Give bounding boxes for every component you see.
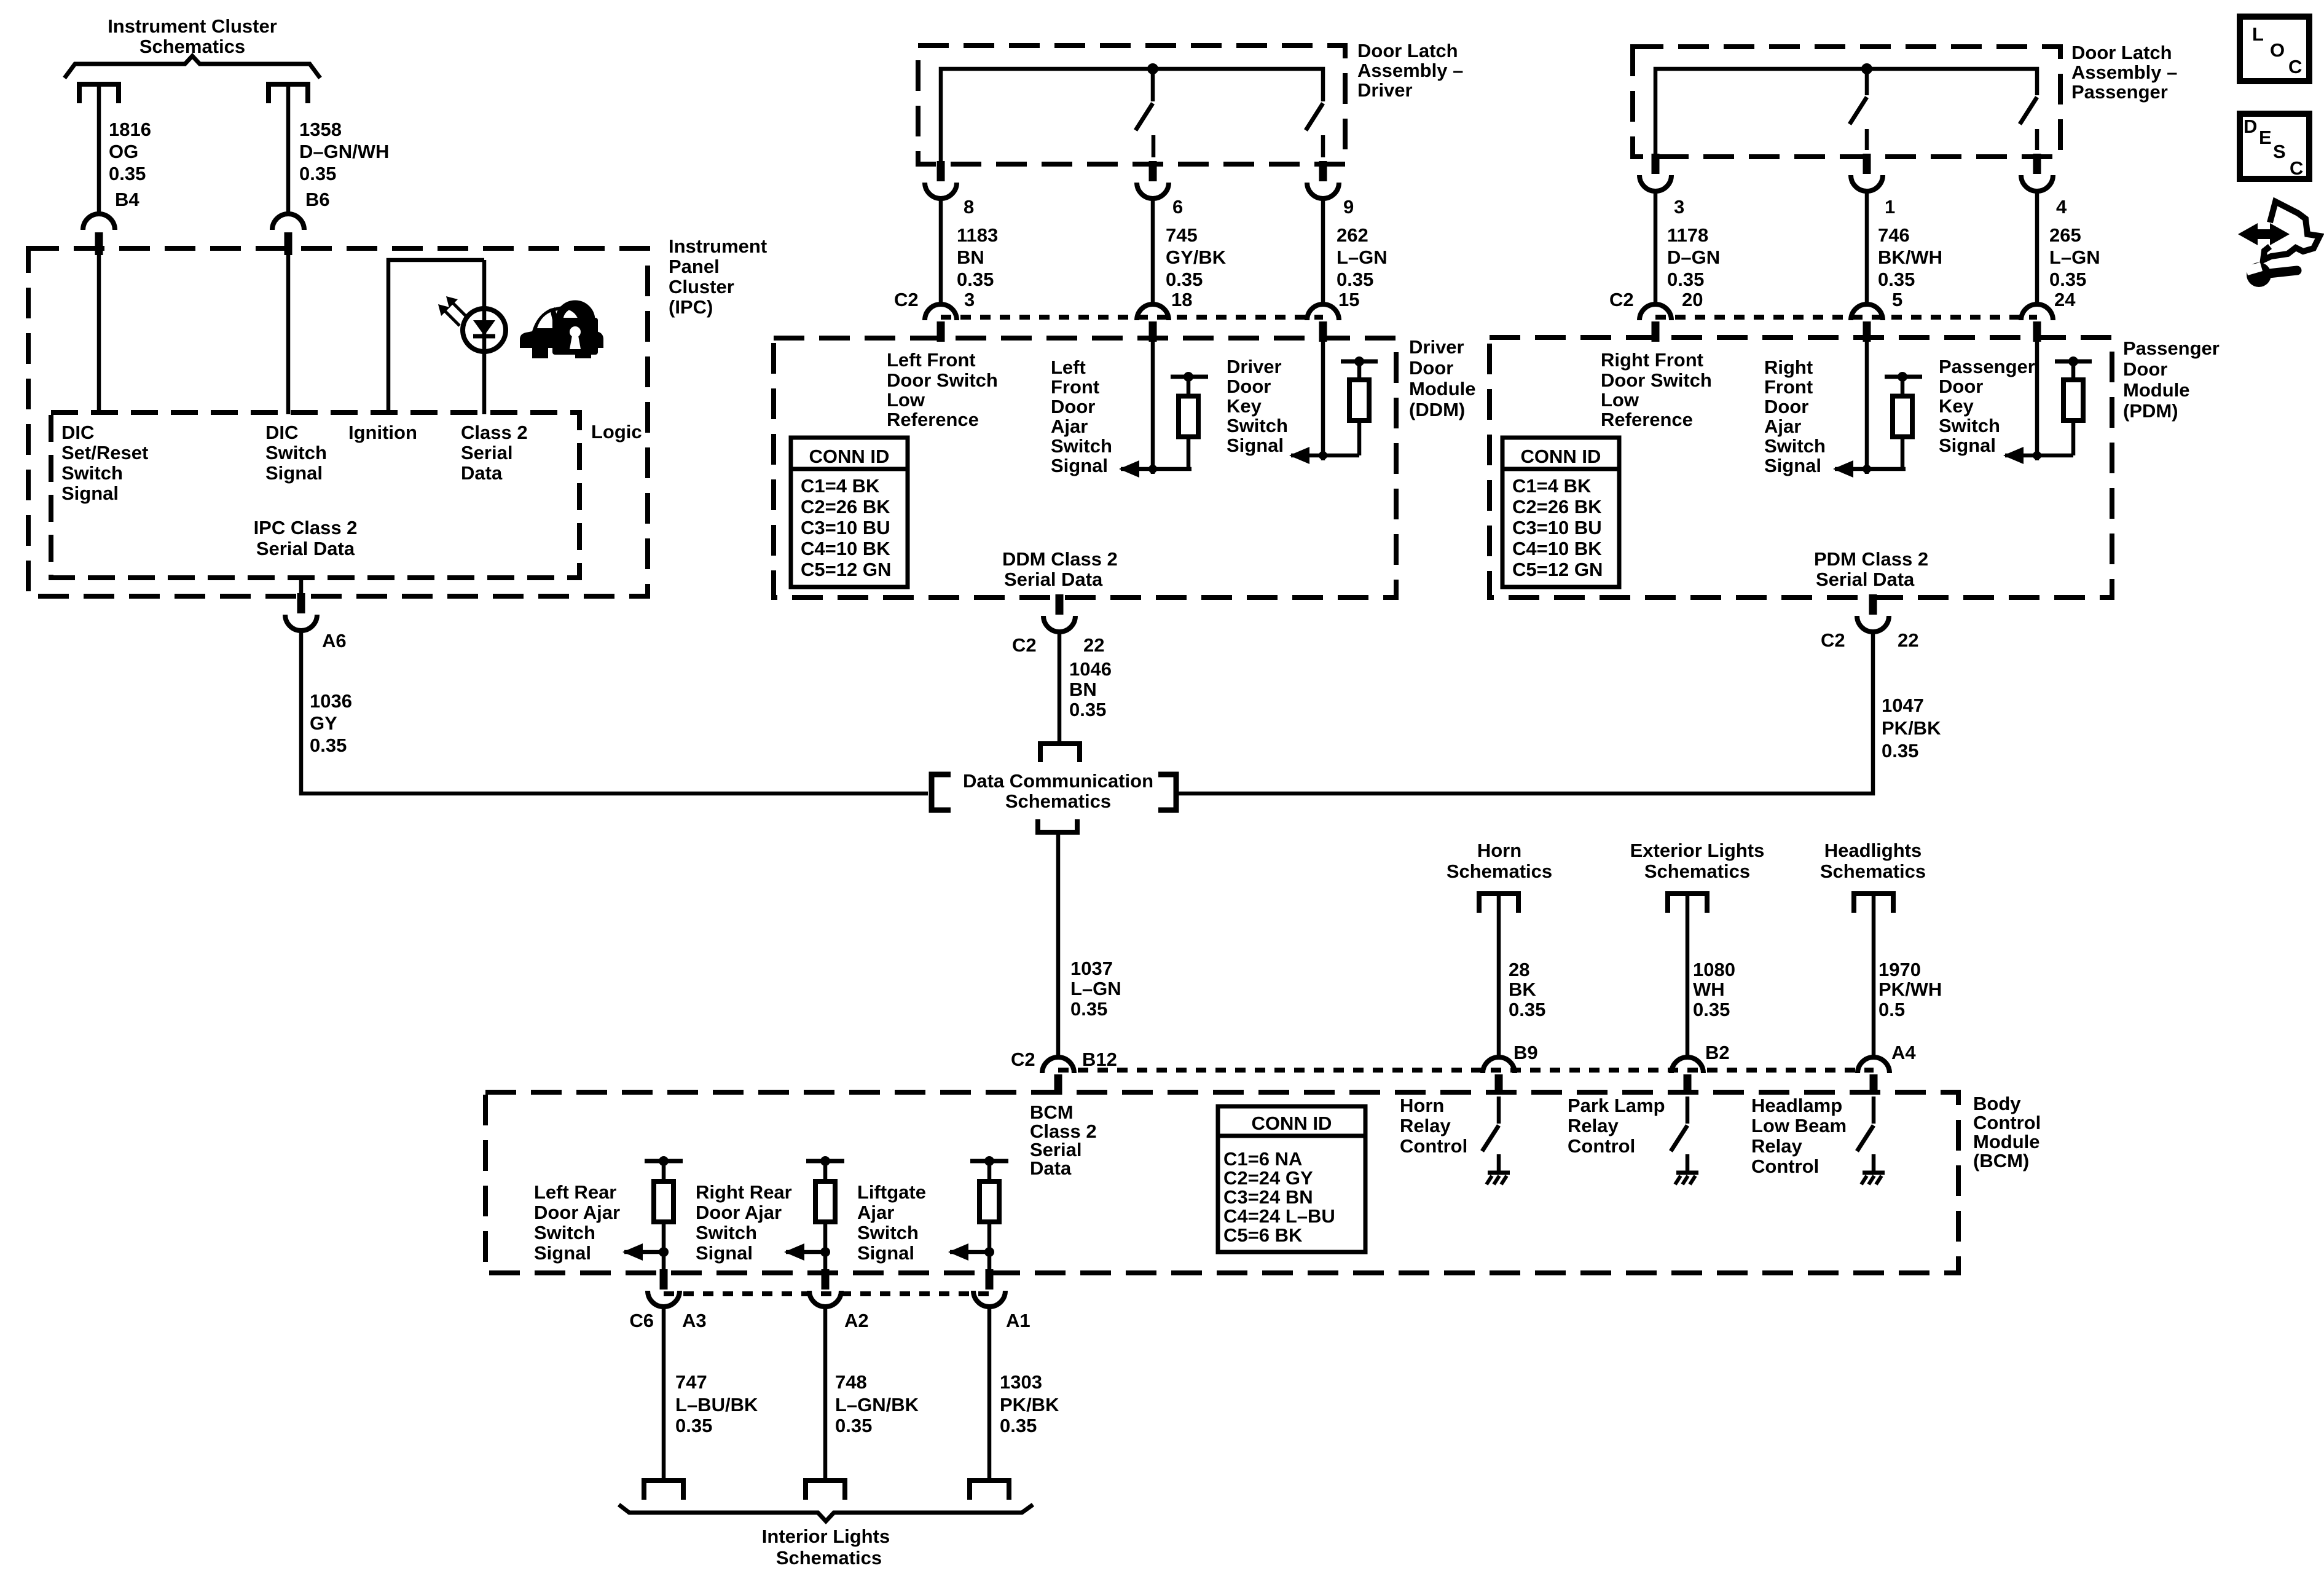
switch latch passenger key [2020, 97, 2037, 150]
svg-text:WH: WH [1693, 979, 1725, 1000]
wire 1358 D-GN/WH [286, 86, 291, 214]
svg-text:Signal: Signal [265, 462, 323, 484]
svg-text:Relay: Relay [1400, 1115, 1451, 1136]
svg-text:262: 262 [1337, 224, 1368, 246]
svg-text:PK/WH: PK/WH [1878, 979, 1942, 1000]
svg-text:Assembly –: Assembly – [2071, 61, 2177, 83]
svg-text:747: 747 [675, 1371, 707, 1393]
junction key passenger [2033, 451, 2041, 460]
ground at x=2746 [1675, 1154, 1698, 1184]
svg-text:(PDM): (PDM) [2123, 400, 2178, 422]
svg-text:Schematics: Schematics [1447, 860, 1552, 882]
wire 1970 PK/WH [1872, 896, 1876, 1057]
svg-text:C2: C2 [1609, 289, 1634, 310]
junction latch passenger [1861, 63, 1872, 74]
junction branch A3 [659, 1247, 669, 1257]
svg-text:B6: B6 [305, 189, 330, 210]
svg-text:Signal: Signal [1051, 455, 1108, 476]
svg-text:Switch: Switch [1227, 415, 1288, 436]
svg-text:E: E [2259, 127, 2272, 148]
connector C2-22 PDM [1857, 594, 1889, 632]
svg-text:C2: C2 [1012, 634, 1037, 656]
svg-text:0.35: 0.35 [109, 163, 146, 184]
svg-text:Ajar: Ajar [857, 1202, 894, 1223]
label IPC Class 2 Serial Data [254, 517, 358, 559]
switch latch driver ajar [1136, 69, 1153, 157]
svg-text:Signal: Signal [61, 482, 119, 504]
label Right Rear Door Ajar Switch Signal [696, 1181, 792, 1264]
label DIC Set/Reset Switch Signal [61, 422, 148, 504]
wire 746 BK/WH [1865, 191, 1869, 305]
svg-text:O: O [2270, 39, 2285, 61]
svg-text:0.35: 0.35 [1069, 699, 1106, 720]
svg-text:C3=24 BN: C3=24 BN [1223, 1186, 1313, 1208]
wire ignition loop [388, 260, 484, 414]
svg-text:DIC: DIC [265, 422, 298, 443]
pin labels 3 18 15 [964, 289, 1359, 310]
connector A3 [648, 1269, 680, 1307]
svg-text:A1: A1 [1006, 1310, 1030, 1331]
label Left Rear Door Ajar Switch Signal [534, 1181, 620, 1264]
connector C2-B12 BCM [1042, 1057, 1074, 1095]
svg-text:0.35: 0.35 [675, 1415, 712, 1436]
icon car with padlock [520, 304, 603, 358]
svg-text:745: 745 [1166, 224, 1198, 246]
svg-text:C3=10 BU: C3=10 BU [801, 517, 890, 538]
label Data Communication Schematics [963, 770, 1153, 812]
pin labels 8 6 9 [964, 196, 1354, 218]
svg-text:0.35: 0.35 [1000, 1415, 1037, 1436]
svg-text:1037: 1037 [1070, 958, 1113, 979]
svg-text:C2: C2 [894, 289, 919, 310]
svg-text:Horn: Horn [1477, 840, 1521, 861]
connector A2 [809, 1269, 841, 1307]
svg-text:C4=10 BK: C4=10 BK [1512, 538, 1602, 559]
connector bottom Data Communication [1038, 819, 1077, 832]
svg-text:1358: 1358 [299, 119, 342, 140]
svg-text:Data Communication: Data Communication [963, 770, 1153, 792]
svg-text:Serial: Serial [461, 442, 512, 463]
connector C2-18 [1137, 304, 1169, 342]
svg-text:Serial Data: Serial Data [1004, 569, 1103, 590]
svg-text:Key: Key [1227, 395, 1262, 417]
connector pin 6 [1137, 161, 1169, 199]
svg-text:Door Latch: Door Latch [1357, 40, 1458, 61]
svg-text:5: 5 [1892, 289, 1902, 310]
arrowhead key signal driver [1289, 447, 1309, 464]
svg-text:0.35: 0.35 [957, 269, 994, 290]
inner logic box [51, 412, 579, 578]
svg-text:Door Switch: Door Switch [887, 369, 998, 391]
svg-text:Driver: Driver [1357, 79, 1413, 101]
svg-text:Control: Control [1568, 1135, 1635, 1157]
wire arrow branch A1 [950, 1250, 989, 1254]
svg-text:C5=6 BK: C5=6 BK [1223, 1224, 1303, 1246]
svg-text:1036: 1036 [310, 690, 352, 712]
wire 747 to interior lights [662, 1307, 666, 1481]
svg-text:Door Ajar: Door Ajar [534, 1202, 620, 1223]
resistor branch A1 [970, 1156, 1008, 1252]
label Right Front Door Switch Low Reference [1601, 349, 1712, 430]
svg-text:C4=24 L–BU: C4=24 L–BU [1223, 1205, 1335, 1227]
label wire 1358 D-GN/WH 0.35 [299, 119, 389, 184]
svg-text:3: 3 [1674, 196, 1684, 218]
svg-text:0.35: 0.35 [2049, 269, 2086, 290]
wire key signal horizontal passenger [2005, 454, 2073, 458]
connector pin 4 [2021, 154, 2053, 191]
svg-text:Low: Low [887, 389, 925, 411]
relay control switch at x=2439 [1482, 1097, 1499, 1151]
svg-text:Ajar: Ajar [1051, 415, 1088, 437]
svg-text:Passenger: Passenger [1939, 356, 2035, 377]
svg-text:C2=26 BK: C2=26 BK [1512, 496, 1602, 518]
svg-text:OG: OG [109, 141, 138, 162]
wire DIC switch inside IPC [286, 255, 291, 414]
label Interior Lights Schematics [762, 1526, 890, 1569]
junction branch A2 [820, 1247, 830, 1257]
svg-text:1178: 1178 [1667, 224, 1708, 246]
svg-text:748: 748 [835, 1371, 867, 1393]
arrowhead branch A3 [622, 1243, 643, 1261]
svg-text:Control: Control [1400, 1135, 1467, 1157]
svg-text:Reference: Reference [887, 409, 979, 430]
dotted connector line BCM top [1058, 1068, 1874, 1073]
svg-text:Schematics: Schematics [1005, 790, 1111, 812]
svg-text:Schematics: Schematics [1820, 860, 1926, 882]
labels C2 B12 [1011, 1049, 1117, 1070]
connector pin 1 [1851, 154, 1883, 191]
connector C2-22 DDM [1043, 594, 1075, 632]
svg-text:Exterior Lights: Exterior Lights [1630, 840, 1765, 861]
svg-text:1046: 1046 [1069, 658, 1112, 680]
svg-text:D: D [2244, 116, 2257, 137]
wire 28 BK [1497, 896, 1501, 1057]
svg-text:Module: Module [1973, 1131, 2040, 1152]
svg-text:Low: Low [1601, 389, 1639, 411]
connector pin 8 [925, 161, 957, 199]
connector A4 at BCM [1858, 1057, 1890, 1095]
svg-text:C5=12 GN: C5=12 GN [1512, 559, 1603, 580]
connector A1 [973, 1269, 1005, 1307]
svg-text:1047: 1047 [1882, 695, 1924, 716]
svg-text:L–GN/BK: L–GN/BK [835, 1394, 919, 1416]
svg-text:Serial Data: Serial Data [1816, 569, 1915, 590]
module box Passenger Door Module (PDM) [1490, 337, 2112, 597]
svg-text:Liftgate: Liftgate [857, 1181, 926, 1203]
svg-text:Front: Front [1764, 376, 1813, 398]
svg-text:0.35: 0.35 [1667, 269, 1704, 290]
svg-text:L–GN: L–GN [1070, 978, 1121, 999]
wire branch A1 down [987, 1252, 992, 1274]
dotted connector line C2 passenger [1655, 315, 2037, 320]
wire arrow branch A3 [624, 1250, 664, 1254]
svg-text:Headlamp: Headlamp [1751, 1095, 1842, 1116]
svg-text:CONN ID: CONN ID [809, 446, 890, 467]
ground at x=3049 [1861, 1154, 1885, 1184]
junction ajar driver [1148, 465, 1157, 473]
label wire 1816 OG 0.35 [109, 119, 151, 184]
label BCM Class 2 Serial Data [1030, 1101, 1097, 1179]
svg-text:L–GN: L–GN [2049, 246, 2100, 268]
svg-text:Signal: Signal [857, 1242, 914, 1264]
label Driver Door Module (DDM) [1409, 336, 1476, 420]
svg-text:265: 265 [2049, 224, 2081, 246]
connector stub to Instrument Cluster (left) [79, 84, 119, 103]
svg-text:Module: Module [1409, 378, 1476, 400]
svg-text:PK/BK: PK/BK [1000, 1394, 1059, 1416]
svg-text:Switch: Switch [265, 442, 327, 463]
pin labels 20 5 24 [1682, 289, 2076, 310]
svg-text:BN: BN [1069, 679, 1097, 700]
resistor branch A3 [645, 1156, 683, 1252]
module box Driver Door Module (DDM) [774, 338, 1396, 597]
wire 748 to interior lights [823, 1307, 828, 1481]
svg-text:1080: 1080 [1693, 959, 1735, 980]
underbrace Interior Lights [619, 1505, 1033, 1521]
wire passenger door key switch signal [2035, 340, 2039, 460]
arrowhead branch A1 [948, 1243, 968, 1261]
svg-text:L–GN: L–GN [1337, 246, 1388, 268]
wire latch passenger common [1655, 69, 2037, 157]
svg-text:C1=4 BK: C1=4 BK [801, 475, 880, 497]
label Driver Door Key Switch Signal [1227, 356, 1288, 456]
label Passenger Door Key Switch Signal [1939, 356, 2035, 456]
connector stub Headlights Schematics [1854, 894, 1893, 913]
svg-text:0.5: 0.5 [1878, 999, 1905, 1020]
svg-text:D–GN/WH: D–GN/WH [299, 141, 389, 162]
DESC box [2240, 114, 2309, 179]
svg-text:(BCM): (BCM) [1973, 1150, 2029, 1171]
svg-text:Switch: Switch [61, 462, 123, 484]
svg-text:22: 22 [1898, 629, 1918, 651]
wire 1046 BN [1058, 632, 1062, 742]
svg-text:A4: A4 [1891, 1042, 1916, 1063]
pin labels A3 A2 A1 [682, 1310, 1030, 1331]
label wire 1036 GY 0.35 [310, 690, 352, 756]
svg-text:C6: C6 [629, 1310, 654, 1331]
svg-text:D–GN: D–GN [1667, 246, 1720, 268]
svg-text:Control: Control [1973, 1112, 2041, 1133]
module box Body Control Module (BCM) [485, 1092, 1958, 1273]
connector stub interior lights x=1080 [644, 1481, 683, 1500]
label Instrument Panel Cluster (IPC) [669, 235, 767, 318]
svg-text:Front: Front [1051, 376, 1099, 398]
svg-text:A3: A3 [682, 1310, 707, 1331]
svg-text:Door: Door [1227, 376, 1271, 397]
svg-text:Instrument: Instrument [669, 235, 767, 257]
icon wrench [2245, 262, 2297, 287]
svg-text:Instrument Cluster: Instrument Cluster [108, 15, 277, 37]
junction branch A1 [984, 1247, 994, 1257]
svg-text:0.35: 0.35 [1166, 269, 1203, 290]
svg-text:Left Front: Left Front [887, 349, 976, 371]
label DIC Switch Signal [265, 422, 327, 484]
arrowhead branch A2 [784, 1243, 804, 1261]
svg-text:Driver: Driver [1409, 336, 1464, 358]
svg-text:Door: Door [1764, 396, 1808, 417]
ground at x=2439 [1486, 1154, 1510, 1184]
wire 1037 L-GN [1056, 832, 1061, 1057]
svg-text:Door: Door [1051, 396, 1095, 417]
svg-text:Left Rear: Left Rear [534, 1181, 616, 1203]
connector B2 at BCM [1671, 1057, 1703, 1095]
labels C2 22 PDM [1821, 629, 1918, 651]
svg-text:Door: Door [2123, 358, 2167, 380]
pin labels 3 1 4 [1674, 196, 2067, 218]
connector C2-5 [1851, 304, 1883, 342]
svg-text:PK/BK: PK/BK [1882, 717, 1941, 739]
connector top Data Communication [1040, 744, 1080, 762]
svg-text:Door Latch: Door Latch [2071, 42, 2172, 63]
svg-text:1: 1 [1885, 196, 1895, 218]
svg-text:S: S [2273, 141, 2286, 162]
table CONN ID DDM [791, 438, 908, 587]
label Park Lamp Relay Control [1568, 1095, 1665, 1157]
switch latch driver key [1306, 103, 1323, 157]
svg-text:Control: Control [1751, 1156, 1819, 1177]
svg-text:Serial Data: Serial Data [256, 538, 355, 559]
wire 1178 D-GN [1654, 191, 1658, 305]
svg-text:1816: 1816 [109, 119, 151, 140]
svg-text:1970: 1970 [1878, 959, 1921, 980]
svg-text:C: C [2290, 157, 2303, 179]
switch latch passenger ajar [1850, 69, 1867, 150]
svg-text:Door Switch: Door Switch [1601, 369, 1712, 391]
arrowhead ajar signal driver [1119, 460, 1139, 478]
svg-text:GY: GY [310, 712, 337, 734]
label Headlamp Low Beam Relay Control [1751, 1095, 1847, 1177]
wire key signal horizontal [1291, 454, 1359, 458]
wire right front door ajar switch signal [1865, 340, 1869, 474]
svg-text:Switch: Switch [1764, 435, 1826, 457]
wire 1036 GY [301, 631, 928, 793]
junction ajar passenger [1863, 465, 1871, 473]
wire 265 L-GN [2035, 191, 2039, 305]
label Horn Relay Control [1400, 1095, 1467, 1157]
connector B4 at IPC [83, 214, 115, 255]
svg-text:15: 15 [1338, 289, 1359, 310]
bracket right Data Communication [1158, 774, 1176, 810]
svg-text:(DDM): (DDM) [1409, 399, 1465, 420]
svg-text:Right Front: Right Front [1601, 349, 1703, 371]
svg-text:BN: BN [957, 246, 984, 268]
svg-text:0.35: 0.35 [1070, 998, 1107, 1020]
svg-text:Right: Right [1764, 356, 1813, 378]
svg-text:BK/WH: BK/WH [1878, 246, 1942, 268]
wire 1303 to interior lights [987, 1307, 992, 1481]
svg-text:Signal: Signal [696, 1242, 753, 1264]
svg-text:Interior Lights: Interior Lights [762, 1526, 890, 1547]
wire 1183 BN [939, 199, 943, 305]
connector stub Exterior Lights Schematics [1668, 894, 1707, 913]
svg-text:CONN ID: CONN ID [1252, 1112, 1332, 1134]
svg-text:Signal: Signal [1227, 435, 1284, 456]
svg-text:Switch: Switch [696, 1222, 757, 1243]
svg-text:DIC: DIC [61, 422, 94, 443]
svg-text:GY/BK: GY/BK [1166, 246, 1227, 268]
wire ajar signal horizontal [1121, 467, 1191, 471]
svg-text:Module: Module [2123, 379, 2190, 401]
svg-text:PDM Class 2: PDM Class 2 [1814, 548, 1928, 570]
svg-text:1183: 1183 [957, 224, 998, 246]
resistor key passenger [2055, 356, 2092, 455]
wire ajar signal horizontal passenger [1835, 467, 1906, 471]
LED arrows [438, 296, 468, 326]
label Left Front Door Ajar Switch Signal [1051, 356, 1112, 476]
label Door Latch Assembly Driver [1357, 40, 1463, 101]
svg-text:L–BU/BK: L–BU/BK [675, 1394, 758, 1416]
bracket left Data Communication [932, 774, 951, 810]
svg-text:0.35: 0.35 [1509, 999, 1545, 1020]
connector pin 3 [1639, 154, 1671, 191]
svg-text:DDM Class 2: DDM Class 2 [1002, 548, 1118, 570]
svg-text:Relay: Relay [1568, 1115, 1619, 1136]
svg-text:Assembly –: Assembly – [1357, 60, 1463, 81]
LED cathode bar [473, 334, 495, 339]
svg-text:Ajar: Ajar [1764, 415, 1801, 437]
relay control switch at x=2746 [1671, 1097, 1687, 1151]
label Exterior Lights Schematics [1630, 840, 1765, 882]
svg-text:4: 4 [2056, 196, 2067, 218]
svg-text:0.35: 0.35 [299, 163, 336, 184]
arrowhead ajar signal passenger [1833, 460, 1853, 478]
label DDM Class 2 Serial Data [1002, 548, 1118, 590]
wire branch A2 down [823, 1252, 828, 1274]
LED diode triangle [473, 320, 495, 336]
LOC box [2240, 17, 2309, 81]
svg-text:C1=4 BK: C1=4 BK [1512, 475, 1592, 497]
svg-text:Signal: Signal [1939, 435, 1996, 456]
svg-text:B12: B12 [1082, 1049, 1117, 1070]
overbrace Instrument Cluster [65, 56, 320, 78]
svg-text:Switch: Switch [857, 1222, 919, 1243]
svg-text:B4: B4 [115, 189, 139, 210]
icon interactive arrow [2238, 202, 2320, 260]
svg-text:Headlights: Headlights [1824, 840, 1922, 861]
svg-text:B2: B2 [1705, 1042, 1730, 1063]
svg-text:28: 28 [1509, 959, 1529, 980]
svg-text:Schematics: Schematics [1644, 860, 1750, 882]
svg-text:C4=10 BK: C4=10 BK [801, 538, 890, 559]
dotted connector line C2 driver [941, 315, 1323, 320]
svg-text:BCM: BCM [1030, 1101, 1074, 1123]
svg-text:A6: A6 [322, 630, 347, 652]
wire 1080 WH [1686, 896, 1690, 1057]
connector C2-15 [1307, 304, 1339, 342]
svg-text:0.35: 0.35 [310, 734, 347, 756]
wire 262 L-GN [1321, 199, 1325, 305]
svg-text:B9: B9 [1513, 1042, 1538, 1063]
wire branch A3 down [662, 1252, 666, 1274]
connector B6 at IPC [272, 214, 304, 255]
resistor ajar passenger [1885, 372, 1922, 469]
svg-text:Horn: Horn [1400, 1095, 1444, 1116]
svg-text:Reference: Reference [1601, 409, 1693, 430]
svg-text:Data: Data [461, 462, 503, 484]
table CONN ID PDM [1502, 438, 1619, 587]
svg-text:C5=12 GN: C5=12 GN [801, 559, 891, 580]
label Class 2 Serial Data [461, 422, 528, 484]
svg-text:Key: Key [1939, 395, 1974, 417]
LED indicator circle [463, 309, 506, 352]
svg-text:0.35: 0.35 [1337, 269, 1373, 290]
module box Instrument Panel Cluster (IPC) [28, 248, 648, 596]
svg-text:C2: C2 [1821, 629, 1845, 651]
svg-text:C1=6 NA: C1=6 NA [1223, 1148, 1302, 1170]
svg-text:Passenger: Passenger [2071, 81, 2168, 103]
svg-text:Switch: Switch [534, 1222, 595, 1243]
dotted connector line C6 [664, 1291, 989, 1296]
